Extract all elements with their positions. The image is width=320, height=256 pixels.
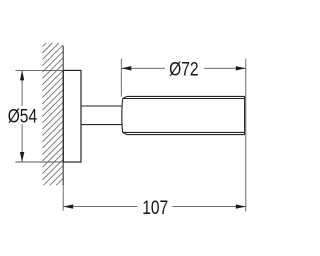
dimension Ø72: left arrowhead bbox=[121, 66, 131, 70]
extension line 107 left (below wall) bbox=[62, 185, 64, 210]
dimension Ø54: up arrowhead bbox=[20, 70, 24, 80]
wall face line bbox=[62, 46, 64, 186]
svg-text:107: 107 bbox=[142, 196, 168, 218]
dimension 107: left arrowhead bbox=[63, 204, 73, 208]
dimension 107: right arrowhead bbox=[236, 204, 246, 208]
dimension Ø54: top extension line bbox=[15, 69, 63, 71]
dimension 107: dimension line bbox=[63, 206, 246, 208]
dimension Ø54: bottom extension line bbox=[15, 161, 63, 163]
dimension Ø54: down arrowhead bbox=[20, 152, 24, 162]
svg-text:Ø72: Ø72 bbox=[169, 58, 198, 80]
dimension Ø72: left extension line bbox=[120, 59, 122, 97]
holder ring / cup (side view) bbox=[122, 96, 245, 134]
svg-text:Ø54: Ø54 bbox=[8, 105, 38, 127]
wall hatching bbox=[42, 43, 63, 185]
dimension Ø72: dimension line bbox=[121, 67, 246, 69]
neck (connector between plate and holder) bbox=[81, 106, 122, 125]
dimension Ø54: dimension line bbox=[21, 70, 23, 162]
dimension Ø72 and 107: right extension line bbox=[245, 59, 247, 212]
dimension Ø72: right arrowhead bbox=[236, 66, 246, 70]
mounting plate (rosette, side view) bbox=[63, 70, 81, 162]
